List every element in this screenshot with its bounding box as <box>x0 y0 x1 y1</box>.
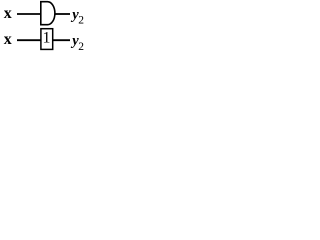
svg-text:x: x <box>4 31 12 48</box>
svg-text:2: 2 <box>78 14 84 26</box>
svg-text:1: 1 <box>43 29 51 46</box>
svg-text:2: 2 <box>78 41 84 52</box>
svg-text:x: x <box>4 5 12 22</box>
